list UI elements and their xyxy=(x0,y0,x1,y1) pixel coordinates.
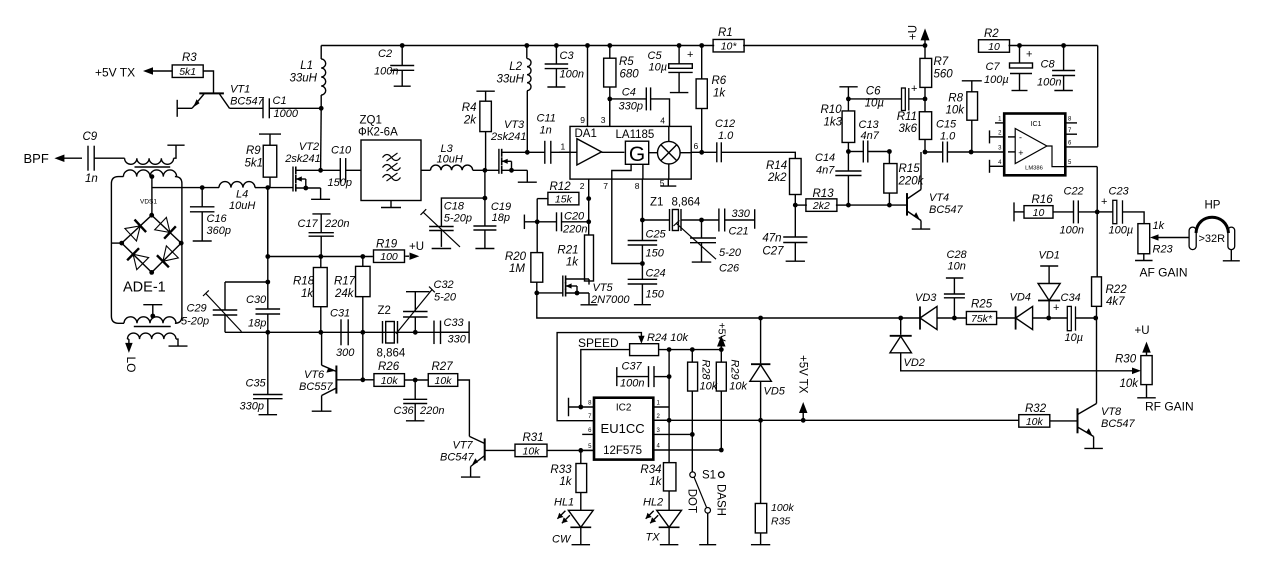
svg-text:150: 150 xyxy=(646,289,665,301)
trimmer capacitor C18 xyxy=(421,198,485,248)
svg-text:C22: C22 xyxy=(1064,186,1084,198)
node R7/R11/C6 xyxy=(923,97,928,102)
svg-text:C7: C7 xyxy=(986,61,1001,73)
transistor VT4 xyxy=(907,152,930,229)
node VT2 drain xyxy=(318,108,323,172)
svg-text:+5V TX: +5V TX xyxy=(95,66,135,80)
svg-text:BPF: BPF xyxy=(24,151,49,166)
resistor R7 xyxy=(920,46,953,112)
svg-text:330: 330 xyxy=(448,334,467,346)
svg-text:4k7: 4k7 xyxy=(1106,296,1125,308)
capacitor C7 polarized xyxy=(984,46,1033,91)
svg-text:10k: 10k xyxy=(381,375,399,387)
svg-text:33uH: 33uH xyxy=(497,74,525,86)
node Z1 right xyxy=(681,218,704,223)
svg-text:BC547: BC547 xyxy=(440,452,475,464)
svg-text:-: - xyxy=(1019,133,1022,143)
resistor R25 xyxy=(966,299,996,326)
wire BPF lead xyxy=(54,154,82,162)
node diode ring corners xyxy=(119,213,183,275)
svg-text:1k: 1k xyxy=(713,88,726,100)
resistor R6 xyxy=(696,46,727,153)
resistor R27 xyxy=(428,361,458,387)
diode VD5 xyxy=(750,318,786,420)
pin 8 of IC1 xyxy=(1065,117,1077,123)
svg-text:+U: +U xyxy=(409,241,424,253)
svg-text:C21: C21 xyxy=(729,226,749,238)
svg-text:10n: 10n xyxy=(948,261,966,273)
svg-text:10k: 10k xyxy=(435,375,453,387)
svg-text:1.0: 1.0 xyxy=(940,131,956,143)
IC1 box xyxy=(1004,114,1065,176)
resistor R1 xyxy=(713,27,744,53)
svg-text:C4: C4 xyxy=(622,87,636,99)
label LA1185 xyxy=(616,129,655,141)
wire VT1 emitter stub xyxy=(177,100,192,117)
ground C16 xyxy=(193,240,212,242)
node audio out xyxy=(1095,210,1100,215)
diode VD4 xyxy=(1010,292,1033,330)
svg-text:HL1: HL1 xyxy=(554,497,574,509)
svg-text:C11: C11 xyxy=(537,113,556,125)
svg-text:10k: 10k xyxy=(523,445,541,457)
capacitor C25 xyxy=(628,229,667,264)
node C20 junctions xyxy=(535,219,591,224)
svg-text:SPEED: SPEED xyxy=(578,336,619,350)
label DASH xyxy=(715,484,727,516)
svg-text:47n: 47n xyxy=(762,233,781,245)
svg-text:5-20: 5-20 xyxy=(719,247,742,259)
svg-text:300: 300 xyxy=(336,347,355,359)
svg-text:10k: 10k xyxy=(1120,378,1140,390)
capacitor C37 xyxy=(617,361,669,390)
svg-text:C3: C3 xyxy=(560,50,575,62)
svg-text:R33: R33 xyxy=(550,464,572,476)
capacitor C21 xyxy=(702,208,755,238)
svg-text:8,864: 8,864 xyxy=(672,197,701,209)
svg-text:L2: L2 xyxy=(509,61,522,73)
svg-text:C23: C23 xyxy=(1109,186,1130,198)
transistor VT1 xyxy=(192,93,230,108)
svg-text:6: 6 xyxy=(694,141,699,151)
svg-text:150: 150 xyxy=(646,248,665,260)
label VT2 2sk241 xyxy=(284,141,320,165)
svg-text:C26: C26 xyxy=(719,263,740,275)
headphones HP xyxy=(1189,200,1240,261)
svg-text:C28: C28 xyxy=(947,249,968,261)
resistor R17 xyxy=(334,257,370,333)
crystal Z2 xyxy=(377,305,406,360)
transformer T2 secondary winding xyxy=(127,327,176,340)
svg-text:9: 9 xyxy=(580,115,585,125)
svg-text:+: + xyxy=(1026,49,1032,61)
internal wires mixer pins xyxy=(668,126,670,179)
svg-text:10µ: 10µ xyxy=(1065,332,1084,344)
LED HL1 xyxy=(552,497,593,546)
label DA1 xyxy=(575,128,597,140)
capacitor C31 xyxy=(330,308,355,360)
svg-text:10µ: 10µ xyxy=(649,62,668,74)
svg-text:VD1: VD1 xyxy=(1039,250,1060,262)
diode VD1 xyxy=(1038,250,1060,319)
svg-text:R18: R18 xyxy=(293,276,315,288)
svg-text:5-20p: 5-20p xyxy=(444,213,472,225)
trimmer capacitor C26 xyxy=(674,220,742,275)
inductor L2 xyxy=(497,46,532,91)
wire +U supply top rail xyxy=(321,45,1097,47)
capacitor C4 xyxy=(610,87,670,127)
svg-text:C1: C1 xyxy=(273,95,287,107)
svg-text:R23: R23 xyxy=(1153,244,1174,256)
wire C1 to L1/VT2 node xyxy=(269,106,323,111)
svg-text:18p: 18p xyxy=(248,318,266,330)
svg-text:R30: R30 xyxy=(1115,354,1137,366)
svg-text:ZQ1: ZQ1 xyxy=(360,115,382,127)
capacitor C27 xyxy=(762,205,807,261)
wire R3 to VT1 base xyxy=(203,71,213,93)
+5V arrow xyxy=(716,323,728,350)
svg-text:VDS1: VDS1 xyxy=(140,199,157,206)
svg-text:10k: 10k xyxy=(729,380,747,392)
svg-text:330p: 330p xyxy=(619,101,643,113)
resistor R14 xyxy=(766,159,801,206)
svg-text:R26: R26 xyxy=(378,361,400,373)
diode ring VDS1 diode left-top xyxy=(122,215,152,243)
pin 6 of DA1 xyxy=(691,141,702,152)
pin 8 of IC2 xyxy=(569,398,595,417)
svg-text:100: 100 xyxy=(380,251,398,263)
diode ring VDS1 diode top-right xyxy=(152,215,182,243)
node R8 bottom xyxy=(969,150,974,155)
svg-text:360p: 360p xyxy=(207,225,231,237)
capacitor C6 polarized xyxy=(848,83,925,111)
pin 8 of DA1 xyxy=(635,181,640,191)
capacitor C23 polarized xyxy=(1097,186,1144,237)
svg-text:C16: C16 xyxy=(207,213,228,225)
svg-text:HL2: HL2 xyxy=(643,497,663,509)
transformer T1 core xyxy=(135,166,171,168)
label LM386 xyxy=(1025,166,1043,172)
svg-text:R8: R8 xyxy=(948,93,963,105)
svg-text:10*: 10* xyxy=(721,41,738,53)
wire ring right node to module edge xyxy=(180,242,183,244)
node R14/R13/C27 xyxy=(793,203,798,208)
wire audio node to R22 xyxy=(1096,212,1098,277)
pin 4 of IC2 xyxy=(653,444,723,453)
capacitor C35 xyxy=(240,332,283,414)
wire transformer tap to C16/L4 xyxy=(152,185,205,190)
svg-text:5-20: 5-20 xyxy=(434,292,457,304)
svg-text:Z2: Z2 xyxy=(378,305,391,317)
diode ring VDS1 diode right-bottom xyxy=(152,243,182,272)
svg-text:R6: R6 xyxy=(712,75,727,87)
capacitor C19 xyxy=(473,198,511,248)
resistor R28 xyxy=(688,350,718,435)
svg-text:R7: R7 xyxy=(934,56,949,68)
svg-text:VD5: VD5 xyxy=(764,386,786,398)
label AF GAIN xyxy=(1140,266,1188,280)
svg-text:S1: S1 xyxy=(702,470,716,482)
svg-text:7: 7 xyxy=(603,181,608,191)
svg-text:R1: R1 xyxy=(718,27,733,39)
svg-text:10uH: 10uH xyxy=(229,200,255,212)
resistor R3 xyxy=(172,52,203,78)
inductor L3 xyxy=(421,143,485,170)
svg-text:>32R: >32R xyxy=(1199,233,1226,245)
svg-text:LM386: LM386 xyxy=(1025,166,1043,172)
svg-text:R19: R19 xyxy=(376,239,398,251)
svg-text:10k: 10k xyxy=(945,105,965,117)
resistor R18 xyxy=(293,257,327,333)
svg-text:G: G xyxy=(629,143,645,166)
svg-text:VT8: VT8 xyxy=(1101,406,1122,418)
capacitor C34 polarized xyxy=(1053,292,1096,344)
wire VD4 to C34 xyxy=(1033,316,1068,321)
label EU1CC xyxy=(601,421,645,436)
svg-text:VT6: VT6 xyxy=(304,369,325,381)
svg-text:ADE-1: ADE-1 xyxy=(123,280,166,296)
resistor R13 xyxy=(795,188,848,212)
resistor R10 xyxy=(821,87,858,143)
svg-text:+: + xyxy=(1053,302,1059,314)
svg-text:150p: 150p xyxy=(328,177,352,189)
svg-text:R12: R12 xyxy=(550,181,572,193)
ADE-1 module outline with secondary windings xyxy=(111,170,181,323)
capacitor C24 xyxy=(628,264,666,305)
svg-text:C18: C18 xyxy=(444,201,465,213)
svg-text:+: + xyxy=(1101,196,1107,208)
internal wire G to pin7 xyxy=(612,164,643,179)
svg-text:4n7: 4n7 xyxy=(816,165,835,177)
mixer circle xyxy=(649,141,691,164)
node junctions y=332.3 xyxy=(265,330,417,335)
potentiometer R30 wiper arrow xyxy=(1132,368,1141,375)
svg-text:VD2: VD2 xyxy=(904,357,925,369)
svg-text:R32: R32 xyxy=(1025,403,1047,415)
svg-text:1: 1 xyxy=(561,142,566,152)
svg-text:+U: +U xyxy=(908,25,920,40)
resistor R33 xyxy=(550,450,586,510)
resistor R5 xyxy=(604,46,640,127)
svg-text:1k3: 1k3 xyxy=(824,117,843,129)
wire R17 bottom to VT6 base xyxy=(360,332,365,382)
+U arrow top xyxy=(908,25,930,46)
label +U at R30 xyxy=(1135,325,1151,356)
svg-text:560: 560 xyxy=(934,69,954,81)
svg-text:100µ: 100µ xyxy=(1109,225,1134,237)
resistor R19 xyxy=(374,239,425,264)
svg-text:+U: +U xyxy=(1135,325,1150,337)
svg-text:5k1: 5k1 xyxy=(245,158,264,170)
svg-text:R21: R21 xyxy=(557,245,578,257)
svg-text:33uH: 33uH xyxy=(290,73,318,85)
svg-text:4: 4 xyxy=(660,116,665,126)
label SPEED xyxy=(578,336,619,350)
svg-text:2sk241: 2sk241 xyxy=(490,131,526,143)
svg-text:1k: 1k xyxy=(566,257,579,269)
svg-text:C34: C34 xyxy=(1061,292,1081,304)
wire R24/C37/pin1 vertical xyxy=(667,350,672,463)
svg-text:C9: C9 xyxy=(83,131,98,143)
label +5V TX xyxy=(95,66,135,80)
svg-text:10uH: 10uH xyxy=(437,154,463,166)
wire gate node down to C18/C19 xyxy=(483,170,488,200)
svg-text:5k1: 5k1 xyxy=(179,66,196,78)
node C25/C24/pin7 xyxy=(640,261,645,266)
label VT1 BC547 xyxy=(230,84,265,108)
svg-text:R11: R11 xyxy=(897,111,917,123)
svg-text:75k*: 75k* xyxy=(971,313,993,325)
svg-text:CW: CW xyxy=(552,534,572,546)
node C13/R15 xyxy=(887,149,892,154)
svg-text:TX: TX xyxy=(646,532,661,544)
svg-text:C37: C37 xyxy=(622,361,643,373)
svg-text:DA1: DA1 xyxy=(575,128,597,140)
svg-text:BC557: BC557 xyxy=(299,381,334,393)
svg-text:330: 330 xyxy=(732,208,751,220)
label VT5 2N7000 xyxy=(590,282,630,306)
wire R3 to +5V TX with arrow xyxy=(143,67,172,75)
capacitor C11 xyxy=(527,113,570,164)
resistor R29 xyxy=(716,350,747,450)
node R11 bottom VT4 collector xyxy=(923,150,928,155)
label VT4 BC547 xyxy=(929,192,964,216)
resistor R26 xyxy=(363,361,405,387)
svg-text:220n: 220n xyxy=(419,405,444,417)
resistor R16 xyxy=(1014,194,1053,221)
node junction dots on top rail xyxy=(400,43,1066,48)
node transformer top tap xyxy=(150,174,155,215)
inductor L4 xyxy=(202,182,268,212)
svg-text:VT3: VT3 xyxy=(504,119,525,131)
svg-text:C31: C31 xyxy=(330,308,350,320)
resistor R32 xyxy=(1019,403,1078,428)
svg-text:4n7: 4n7 xyxy=(861,130,880,142)
label 12F575 xyxy=(603,445,642,457)
svg-text:R22: R22 xyxy=(1106,284,1128,296)
svg-text:+: + xyxy=(687,49,693,61)
wire keyer line xyxy=(653,419,1019,421)
svg-text:R14: R14 xyxy=(766,160,787,172)
wire bias line y=332.3 xyxy=(225,331,469,333)
transistor VT3 2sk241 xyxy=(499,149,537,182)
svg-text:2k: 2k xyxy=(463,115,477,127)
wire pin7 to C24/C25 node xyxy=(612,179,643,263)
svg-text:1.0: 1.0 xyxy=(718,130,734,142)
transistor VT8 xyxy=(1078,404,1103,449)
svg-text:680: 680 xyxy=(620,69,640,81)
pin 3 of IC1 xyxy=(998,146,1002,152)
wire LO arrow xyxy=(125,339,132,353)
pin 9 of DA1 xyxy=(580,46,587,127)
svg-text:330p: 330p xyxy=(240,401,264,413)
svg-text:10: 10 xyxy=(1033,207,1045,219)
svg-text:C14: C14 xyxy=(815,152,835,164)
svg-text:C32: C32 xyxy=(434,279,454,291)
transistor VT2 2sk241 xyxy=(293,167,330,200)
svg-text:VT4: VT4 xyxy=(929,192,949,204)
crystal Z1 xyxy=(642,197,700,232)
pin 5 of IC1 xyxy=(1065,160,1097,212)
wire ring left node to module edge xyxy=(111,242,121,244)
IC2 box xyxy=(594,398,653,460)
node R13 right xyxy=(846,203,851,208)
IC DA1 LA1185 box xyxy=(570,126,691,179)
svg-text:R29: R29 xyxy=(729,359,741,379)
wire C29/C30 top xyxy=(225,280,270,285)
svg-text:18p: 18p xyxy=(492,212,510,224)
capacitor C36 xyxy=(394,380,445,421)
resistor R8 xyxy=(945,81,981,152)
svg-text:VT1: VT1 xyxy=(230,84,250,96)
svg-text:3: 3 xyxy=(601,115,606,125)
diode VD2 xyxy=(890,318,1133,371)
svg-text:10: 10 xyxy=(988,41,1000,53)
svg-text:100µ: 100µ xyxy=(984,74,1009,86)
svg-text:ФК2-6А: ФК2-6А xyxy=(358,127,398,139)
svg-text:10k: 10k xyxy=(700,380,718,392)
capacitor C28 xyxy=(944,249,968,318)
amplifier G block xyxy=(602,141,649,166)
svg-text:2N7000: 2N7000 xyxy=(590,294,630,306)
op-amp triangle IC1 xyxy=(1008,129,1065,167)
label IC2 xyxy=(616,403,632,414)
capacitor C10 xyxy=(321,145,361,190)
svg-text:C27: C27 xyxy=(762,246,784,258)
pin 3 of DA1 xyxy=(601,99,610,127)
svg-text:EU1CC: EU1CC xyxy=(601,421,645,436)
svg-text:C36: C36 xyxy=(394,405,415,417)
svg-text:R16: R16 xyxy=(1032,194,1054,206)
svg-text:1n: 1n xyxy=(540,125,552,137)
resistor R35 xyxy=(751,420,795,544)
svg-text:R35: R35 xyxy=(771,516,790,528)
svg-text:C8: C8 xyxy=(1041,59,1056,71)
ground C2 xyxy=(394,85,411,87)
svg-text:10k: 10k xyxy=(1026,416,1044,428)
svg-text:8,864: 8,864 xyxy=(377,348,406,360)
+5V TX arrow xyxy=(799,402,808,420)
svg-text:100k: 100k xyxy=(771,502,795,514)
svg-text:C5: C5 xyxy=(648,50,663,62)
svg-text:1k: 1k xyxy=(1153,220,1165,232)
potentiometer R24 xyxy=(630,332,689,356)
capacitor C17 with top ground xyxy=(298,214,350,257)
resistor R15 xyxy=(884,152,925,206)
label VT8 BC547 xyxy=(1101,406,1136,430)
node R12 right to pin2 xyxy=(586,196,591,201)
wire R13 to VT4 base xyxy=(848,203,907,208)
label LO xyxy=(124,357,138,373)
svg-text:8: 8 xyxy=(635,181,640,191)
svg-text:100n: 100n xyxy=(1060,225,1084,237)
pin 7 of DA1 xyxy=(603,181,608,191)
pin 1 of DA1 xyxy=(559,142,570,153)
svg-text:5-20p: 5-20p xyxy=(181,316,209,328)
svg-text:1M: 1M xyxy=(509,263,525,275)
wire mid supply y=256.5 xyxy=(268,188,373,282)
capacitor C9 xyxy=(83,131,98,185)
pin 3 of IC2 xyxy=(653,428,694,437)
wire C9 to transformer xyxy=(94,157,124,159)
capacitor C1 xyxy=(263,95,299,120)
svg-text:R27: R27 xyxy=(432,361,454,373)
pin 2 of DA1 xyxy=(580,179,589,199)
capacitor C22 xyxy=(1053,186,1097,237)
label VT6 BC557 xyxy=(299,369,334,393)
svg-text:100n: 100n xyxy=(374,66,398,78)
wire VT2 gate lead xyxy=(268,187,293,189)
